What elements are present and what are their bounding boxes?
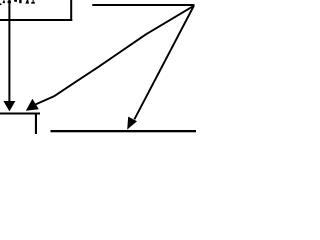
wire: corner vertical (x=71) [70, 0, 72, 21]
text fragment mark 1 [0, 3, 1, 5]
text fragment mark 7 stem [33, 0, 34, 2]
text fragment mark 5 [19, 0, 21, 3]
arrowhead: steep diagonal edge end [127, 117, 137, 130]
arrowhead: down arrow at end of left vertical wire [3, 101, 15, 111]
wire: upper horizontal (y=20) [0, 19, 72, 21]
text fragment mark 3 (blob at top of left vertical wire) [8, 1, 11, 3]
wire: bottom horizontal (y=131) [51, 130, 197, 132]
text fragment mark 7 base [31, 2, 35, 4]
edge: steep diagonal from top-right corner to bottom-middle arrowhead [134, 6, 194, 120]
wire: middle vertical going down (x=36) [35, 113, 37, 135]
text fragment mark 4 [14, 0, 17, 2]
text fragment mark 2 [2, 0, 5, 3]
arrowhead: shallow diagonal edge end [26, 99, 39, 111]
edge: shallow diagonal from top-right corner to lower-left arrowhead [35, 6, 194, 105]
wire: top horizontal (y=5) [92, 4, 194, 6]
wire: lower-left horizontal (y=113.5) [0, 113, 40, 115]
wire: left vertical [8, 0, 10, 101]
text fragment mark 6 [25, 0, 29, 4]
